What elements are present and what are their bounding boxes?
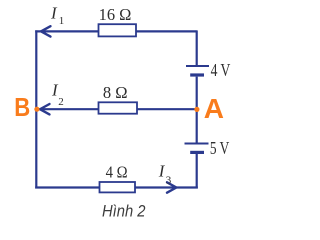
svg-text:3: 3	[166, 174, 172, 186]
battery B2 5V short plate	[190, 151, 204, 154]
node B junction dot	[34, 107, 39, 112]
wire: bottom branch left segment	[35, 186, 99, 188]
resistor R1 16 ohm box	[99, 24, 137, 36]
arrow I2 (points left on middle branch)	[40, 104, 50, 114]
wire: right vertical bottom (5V battery to bottom corner)	[196, 154, 198, 189]
svg-text:2: 2	[58, 96, 64, 108]
wire: top branch right segment	[136, 30, 197, 32]
svg-text:8 Ω: 8 Ω	[103, 83, 128, 102]
svg-text:I: I	[50, 4, 58, 23]
wire: top branch left segment	[35, 30, 98, 32]
resistor R3 4 ohm box	[100, 182, 136, 192]
resistor R2 8 ohm box	[99, 102, 138, 113]
wire: right vertical between 4V battery and 5V battery through node A	[196, 77, 198, 143]
arrow I1 (points left on top branch)	[41, 26, 51, 36]
svg-text:4 V: 4 V	[211, 60, 231, 80]
wire: left vertical branch (node B column)	[35, 30, 37, 188]
svg-text:Hình 2: Hình 2	[102, 202, 146, 221]
battery B1 4V long plate	[186, 65, 209, 67]
arrow I3 (points right on bottom branch)	[167, 182, 176, 192]
svg-text:I: I	[158, 161, 166, 180]
wire: middle branch right segment	[137, 108, 197, 110]
svg-text:B: B	[14, 92, 30, 122]
wire: middle branch left segment	[36, 108, 98, 110]
wire: bottom branch right segment	[135, 186, 198, 188]
svg-text:4 Ω: 4 Ω	[106, 163, 128, 182]
node A junction dot	[194, 107, 199, 112]
svg-text:A: A	[204, 93, 224, 124]
svg-text:1: 1	[59, 15, 65, 27]
battery B2 5V long plate	[185, 143, 209, 145]
svg-text:5 V: 5 V	[210, 138, 229, 158]
svg-text:16 Ω: 16 Ω	[99, 5, 132, 24]
battery B1 4V short plate	[190, 73, 204, 76]
wire: right vertical top (corner to 4V battery)	[196, 30, 198, 65]
